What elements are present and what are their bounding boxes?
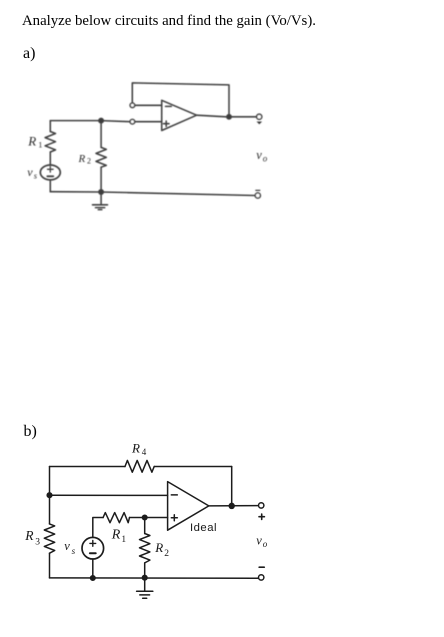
svg-text:v: v	[256, 534, 262, 548]
svg-text:v: v	[27, 165, 33, 179]
svg-text:1: 1	[121, 535, 126, 545]
svg-text:1: 1	[38, 140, 42, 150]
svg-text:s: s	[34, 170, 38, 180]
svg-text:Ideal: Ideal	[190, 522, 217, 534]
svg-text:R: R	[131, 440, 140, 455]
svg-text:o: o	[263, 153, 268, 163]
svg-text:o: o	[263, 539, 268, 549]
svg-text:4: 4	[142, 447, 147, 457]
svg-text:R: R	[111, 527, 121, 542]
svg-text:s: s	[72, 546, 76, 556]
svg-text:R: R	[24, 528, 34, 543]
svg-text:v: v	[256, 148, 262, 162]
svg-text:R: R	[78, 153, 86, 165]
svg-text:2: 2	[87, 157, 91, 166]
svg-text:R: R	[154, 540, 163, 555]
svg-text:v: v	[64, 539, 70, 553]
svg-text:3: 3	[35, 537, 40, 547]
svg-text:R: R	[27, 134, 36, 149]
svg-text:2: 2	[164, 549, 169, 559]
